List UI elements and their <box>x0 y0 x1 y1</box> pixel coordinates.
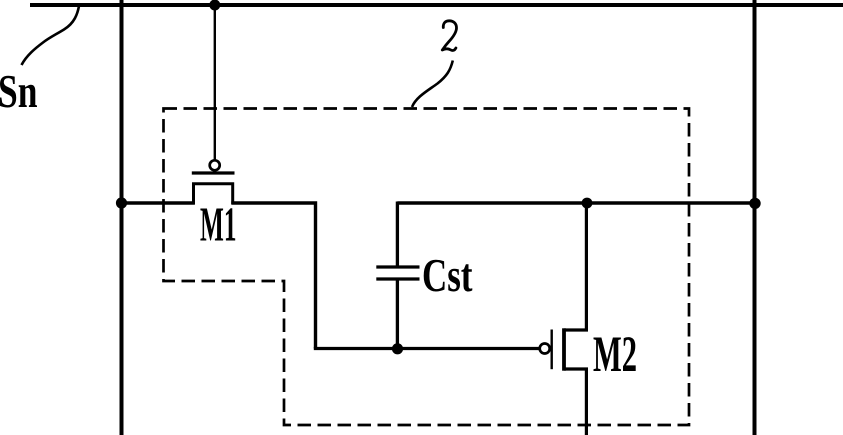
transistor M1 <box>192 160 235 204</box>
wire power line (right vertical) <box>753 0 757 435</box>
label M2 <box>594 337 636 371</box>
wire node B: cap top to power line <box>397 201 754 204</box>
wire M1 gate to scan line <box>214 5 216 161</box>
node dot data line / M1 source <box>116 197 127 208</box>
label 2 <box>442 21 456 51</box>
leader line for label 2 <box>412 61 453 108</box>
label Cst <box>424 260 473 292</box>
wire M2 source riser up to node B <box>585 203 588 331</box>
leader squiggle for label Sn <box>22 6 80 65</box>
node dot power line / node B <box>749 198 760 209</box>
wire capacitor top lead <box>396 202 399 267</box>
wire M2 drain down to bottom edge <box>585 369 588 435</box>
wire M1 drain right then down to storage node <box>231 203 315 349</box>
wire storage node horizontal to M2 gate <box>314 347 540 350</box>
dashed pixel-circuit box 2 <box>164 109 690 426</box>
label M1 <box>200 208 235 240</box>
node dot M2 source on node B <box>582 198 593 209</box>
wire data line (left vertical) <box>120 0 124 435</box>
transistor M2 <box>540 328 588 370</box>
wire scan line Sn (top horizontal) <box>30 3 843 7</box>
label Sn <box>0 76 37 108</box>
wire capacitor bottom lead <box>396 280 399 350</box>
node dot storage node / cap bottom <box>392 343 403 354</box>
node dot on scan line at M1 gate <box>209 0 220 11</box>
capacitor Cst <box>376 267 419 279</box>
wire data line to M1 source <box>120 201 195 204</box>
